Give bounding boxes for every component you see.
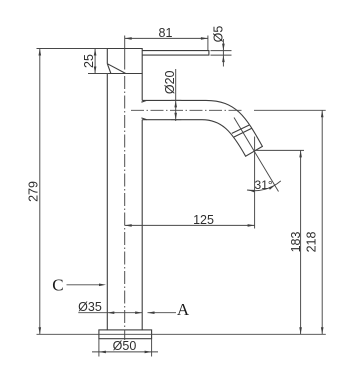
svg-text:Ø50: Ø50: [113, 339, 137, 353]
C: [99, 284, 106, 287]
nozzle tip vertical extension: [254, 137, 256, 229]
base plate: [99, 330, 152, 339]
svg-text:A: A: [177, 300, 190, 319]
svg-text:279: 279: [27, 181, 41, 202]
dim 81 extension lines: [125, 36, 208, 70]
81 left / right: [125, 37, 132, 40]
dim 218 extension: [254, 109, 326, 111]
ground extension line: [37, 333, 326, 335]
spout tube and nozzle: [141, 100, 262, 156]
svg-text:Ø20: Ø20: [163, 70, 177, 94]
dim Ø35 line: [78, 312, 142, 314]
horizontal centerline of spout: [131, 109, 243, 111]
svg-text:81: 81: [159, 26, 173, 40]
svg-text:25: 25: [82, 54, 96, 68]
dim 81 line: [125, 37, 208, 39]
dim Ø5 ticks and line: [211, 39, 232, 67]
183: [299, 150, 302, 157]
A: [148, 311, 155, 314]
angle 31 arc: [247, 181, 281, 191]
Ø20: [174, 100, 177, 107]
dim 125 line: [125, 224, 255, 226]
Ø50: [99, 351, 106, 354]
faucet head (cartridge housing): [107, 49, 142, 74]
dim Ø50 extensions: [99, 339, 152, 357]
svg-text:Ø35: Ø35: [78, 300, 102, 314]
vertical centerline of body: [124, 76, 126, 340]
25: [94, 49, 97, 56]
C leader: [67, 284, 102, 286]
Ø5: [222, 44, 225, 51]
dim 279 line: [39, 49, 41, 335]
dim 218 line: [321, 110, 323, 334]
125: [125, 224, 132, 227]
faucet body column: [107, 74, 142, 331]
dim 183 line: [300, 150, 302, 334]
svg-text:C: C: [52, 276, 63, 295]
dimension texts: [27, 26, 319, 353]
dim 183 extension: [255, 149, 304, 151]
svg-text:Ø5: Ø5: [212, 26, 226, 43]
lever handle: [142, 51, 209, 56]
dim 25 line: [94, 49, 96, 74]
dim Ø50 line: [92, 351, 158, 353]
dim 25 extension lines: [37, 49, 108, 74]
svg-text:218: 218: [304, 232, 318, 253]
A leader: [148, 312, 177, 314]
svg-text:31°: 31°: [255, 178, 273, 192]
angle 31 leader: [234, 118, 279, 192]
279: [39, 49, 42, 56]
arc ends: [247, 189, 254, 193]
Ø35: [107, 311, 114, 314]
svg-text:125: 125: [193, 213, 214, 227]
arrowheads: [39, 37, 324, 353]
svg-text:183: 183: [289, 232, 303, 253]
dim Ø20 line: [171, 69, 181, 121]
218: [321, 110, 324, 117]
